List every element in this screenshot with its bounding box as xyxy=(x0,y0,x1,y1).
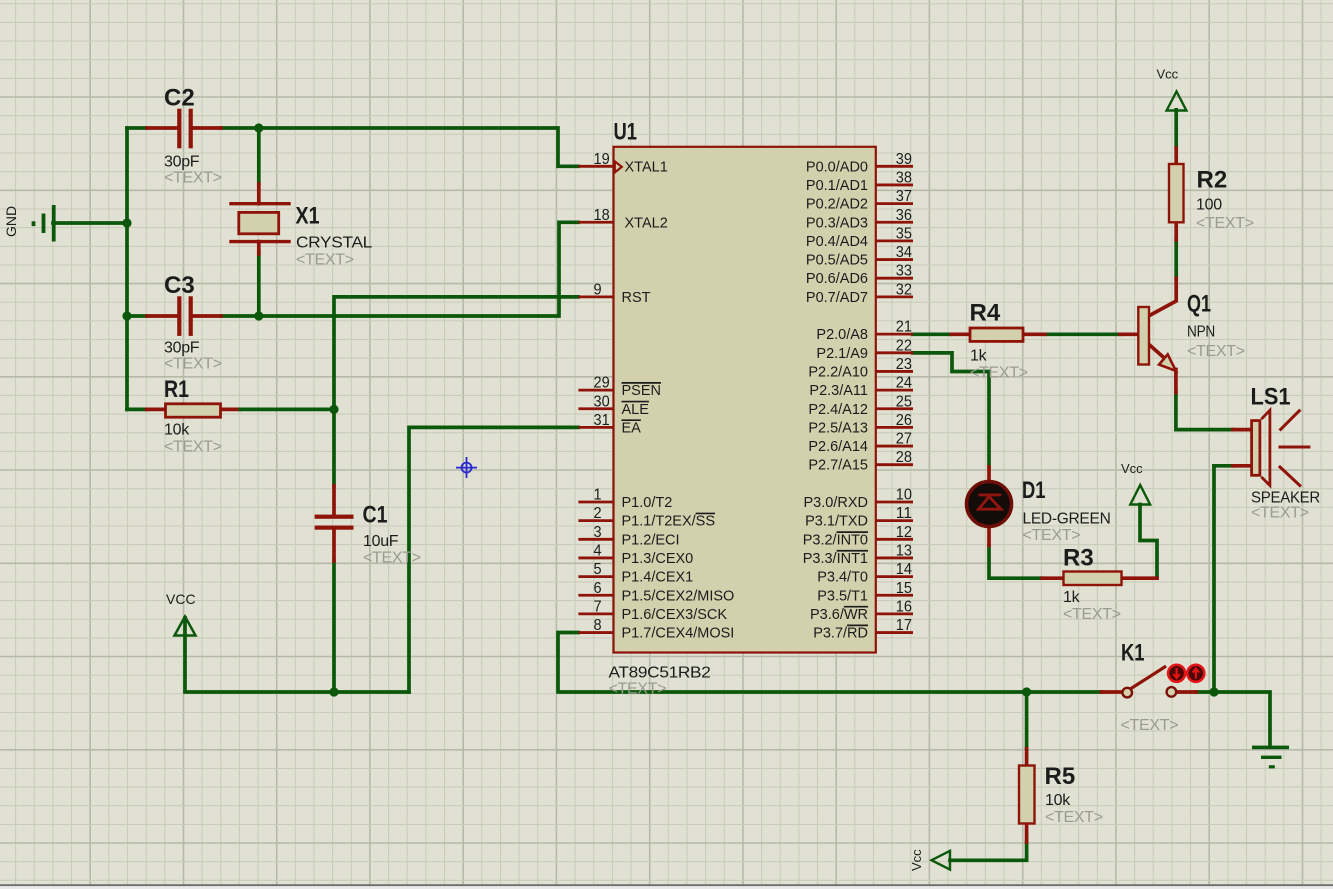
svg-text:<TEXT>: <TEXT> xyxy=(1251,505,1309,522)
svg-text:C2: C2 xyxy=(164,85,195,112)
svg-text:XTAL1: XTAL1 xyxy=(625,159,668,175)
svg-text:P2.7/A15: P2.7/A15 xyxy=(808,458,868,474)
svg-text:X1: X1 xyxy=(296,203,320,230)
svg-text:38: 38 xyxy=(896,169,912,186)
svg-text:ALE: ALE xyxy=(622,402,650,418)
svg-text:VCC: VCC xyxy=(166,591,196,607)
svg-text:P0.5/AD5: P0.5/AD5 xyxy=(806,253,868,269)
svg-text:CRYSTAL: CRYSTAL xyxy=(296,235,372,252)
svg-text:16: 16 xyxy=(896,598,912,615)
svg-text:P2.3/A11: P2.3/A11 xyxy=(809,383,868,399)
svg-text:P3.6/WR: P3.6/WR xyxy=(810,607,868,623)
svg-text:4: 4 xyxy=(594,542,602,559)
svg-text:R4: R4 xyxy=(970,300,1001,327)
svg-text:36: 36 xyxy=(896,207,912,224)
svg-text:Vcc: Vcc xyxy=(1157,67,1179,82)
svg-text:AT89C51RB2: AT89C51RB2 xyxy=(609,665,711,682)
svg-text:P0.1/AD1: P0.1/AD1 xyxy=(806,178,868,194)
svg-text:5: 5 xyxy=(594,561,602,578)
svg-text:P2.5/A13: P2.5/A13 xyxy=(808,420,868,436)
svg-text:34: 34 xyxy=(896,244,912,261)
svg-text:C1: C1 xyxy=(363,502,388,529)
svg-text:24: 24 xyxy=(896,375,912,392)
svg-text:35: 35 xyxy=(896,225,912,242)
svg-text:15: 15 xyxy=(896,580,912,597)
svg-text:K1: K1 xyxy=(1121,640,1145,667)
svg-text:18: 18 xyxy=(594,207,610,224)
svg-text:Vcc: Vcc xyxy=(909,849,924,871)
svg-text:6: 6 xyxy=(594,580,602,597)
svg-text:3: 3 xyxy=(594,524,602,541)
svg-text:D1: D1 xyxy=(1022,477,1046,504)
svg-text:P0.3/AD3: P0.3/AD3 xyxy=(806,215,868,231)
svg-text:27: 27 xyxy=(896,431,912,448)
svg-text:P1.6/CEX3/SCK: P1.6/CEX3/SCK xyxy=(622,607,728,623)
svg-text:31: 31 xyxy=(594,412,610,429)
svg-text:<TEXT>: <TEXT> xyxy=(609,681,667,698)
svg-text:22: 22 xyxy=(896,337,912,354)
svg-text:39: 39 xyxy=(896,151,912,168)
svg-text:R3: R3 xyxy=(1063,545,1094,572)
svg-text:29: 29 xyxy=(594,375,610,392)
svg-text:32: 32 xyxy=(896,281,912,298)
svg-text:R5: R5 xyxy=(1045,763,1076,790)
svg-text:13: 13 xyxy=(896,542,912,559)
svg-text:LS1: LS1 xyxy=(1251,384,1291,411)
svg-text:P1.4/CEX1: P1.4/CEX1 xyxy=(622,570,694,586)
svg-text:11: 11 xyxy=(896,505,912,522)
svg-text:<TEXT>: <TEXT> xyxy=(363,550,421,567)
svg-text:37: 37 xyxy=(896,188,912,205)
svg-text:P0.2/AD2: P0.2/AD2 xyxy=(806,197,868,213)
svg-text:28: 28 xyxy=(896,449,912,466)
svg-text:10k: 10k xyxy=(164,422,190,439)
svg-text:P0.7/AD7: P0.7/AD7 xyxy=(806,290,868,306)
svg-text:14: 14 xyxy=(896,561,912,578)
svg-text:P1.1/T2EX/SS: P1.1/T2EX/SS xyxy=(622,514,716,530)
svg-text:P0.4/AD4: P0.4/AD4 xyxy=(806,234,868,250)
svg-text:<TEXT>: <TEXT> xyxy=(164,439,222,456)
svg-text:P2.1/A9: P2.1/A9 xyxy=(816,346,868,362)
svg-text:P1.3/CEX0: P1.3/CEX0 xyxy=(622,551,694,567)
svg-text:P2.4/A12: P2.4/A12 xyxy=(808,402,868,418)
svg-text:P3.0/RXD: P3.0/RXD xyxy=(804,495,868,511)
svg-text:21: 21 xyxy=(896,319,912,336)
svg-text:P2.6/A14: P2.6/A14 xyxy=(808,439,868,455)
svg-text:R2: R2 xyxy=(1197,167,1228,194)
svg-text:C3: C3 xyxy=(164,272,195,299)
svg-text:<TEXT>: <TEXT> xyxy=(296,252,354,269)
svg-text:P3.3/INT1: P3.3/INT1 xyxy=(803,551,868,567)
svg-text:<TEXT>: <TEXT> xyxy=(1196,215,1254,232)
svg-text:R1: R1 xyxy=(164,376,189,403)
svg-text:1: 1 xyxy=(594,487,602,504)
svg-text:P3.2/INT0: P3.2/INT0 xyxy=(803,532,868,548)
svg-text:19: 19 xyxy=(594,151,610,168)
svg-text:P3.7/RD: P3.7/RD xyxy=(813,626,868,642)
svg-text:2: 2 xyxy=(594,505,602,522)
svg-text:<TEXT>: <TEXT> xyxy=(1045,809,1103,826)
svg-text:<TEXT>: <TEXT> xyxy=(1187,343,1245,360)
svg-text:<TEXT>: <TEXT> xyxy=(1023,527,1081,544)
svg-text:10k: 10k xyxy=(1045,792,1071,809)
svg-text:<TEXT>: <TEXT> xyxy=(164,356,222,373)
svg-text:XTAL2: XTAL2 xyxy=(625,215,668,231)
svg-text:P1.2/ECI: P1.2/ECI xyxy=(622,532,680,548)
svg-text:8: 8 xyxy=(594,617,602,634)
svg-text:PSEN: PSEN xyxy=(622,383,662,399)
svg-text:12: 12 xyxy=(896,524,912,541)
svg-text:25: 25 xyxy=(896,393,912,410)
svg-text:30pF: 30pF xyxy=(164,340,200,357)
svg-text:P2.2/A10: P2.2/A10 xyxy=(808,364,868,380)
svg-text:Q1: Q1 xyxy=(1187,291,1211,318)
svg-text:P3.1/TXD: P3.1/TXD xyxy=(805,514,868,530)
svg-text:30: 30 xyxy=(594,393,610,410)
svg-text:9: 9 xyxy=(594,281,602,298)
svg-text:P3.5/T1: P3.5/T1 xyxy=(817,588,868,604)
svg-text:10uF: 10uF xyxy=(363,533,399,550)
svg-text:GND: GND xyxy=(3,206,19,237)
svg-text:P2.0/A8: P2.0/A8 xyxy=(816,327,868,343)
svg-text:P1.7/CEX4/MOSI: P1.7/CEX4/MOSI xyxy=(622,626,735,642)
svg-text:Vcc: Vcc xyxy=(1121,461,1143,476)
svg-text:P1.5/CEX2/MISO: P1.5/CEX2/MISO xyxy=(622,588,735,604)
svg-text:RST: RST xyxy=(622,290,651,306)
svg-text:EA: EA xyxy=(622,420,642,436)
svg-text:100: 100 xyxy=(1196,197,1222,214)
svg-text:NPN: NPN xyxy=(1187,324,1215,341)
svg-text:<TEXT>: <TEXT> xyxy=(970,365,1028,382)
svg-text:7: 7 xyxy=(594,598,602,615)
svg-text:P1.0/T2: P1.0/T2 xyxy=(622,495,673,511)
svg-text:26: 26 xyxy=(896,412,912,429)
svg-text:U1: U1 xyxy=(614,119,638,146)
svg-text:23: 23 xyxy=(896,356,912,373)
svg-text:17: 17 xyxy=(896,617,912,634)
svg-text:<TEXT>: <TEXT> xyxy=(1121,717,1179,734)
svg-text:10: 10 xyxy=(896,487,912,504)
svg-text:P3.4/T0: P3.4/T0 xyxy=(817,570,868,586)
svg-text:P0.0/AD0: P0.0/AD0 xyxy=(806,159,868,175)
svg-text:LED-GREEN: LED-GREEN xyxy=(1023,511,1111,528)
svg-text:33: 33 xyxy=(896,263,912,280)
svg-text:1k: 1k xyxy=(970,348,988,365)
svg-text:<TEXT>: <TEXT> xyxy=(164,170,222,187)
svg-text:P0.6/AD6: P0.6/AD6 xyxy=(806,271,868,287)
svg-text:30pF: 30pF xyxy=(164,154,200,171)
svg-text:1k: 1k xyxy=(1063,589,1081,606)
svg-text:<TEXT>: <TEXT> xyxy=(1063,606,1121,623)
